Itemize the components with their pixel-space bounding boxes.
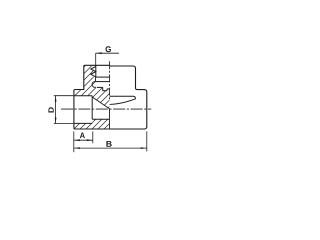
hatch: junction wedge section (80, 69, 115, 137)
body + branch outer outline (74, 65, 147, 129)
dimension D (54, 96, 74, 124)
thread crest line (95, 65, 97, 77)
insert bottom step line 1 (96, 76, 110, 78)
dimension B (74, 131, 147, 151)
seat step h3 (97, 86, 103, 88)
dimension A (74, 131, 93, 152)
socket bore bottom line (74, 122, 92, 124)
thread runout arc (92, 82, 96, 88)
seat step v2 (106, 89, 108, 91)
hatch: body bottom wall section (62, 97, 139, 139)
section boundary vertical below axis (109, 109, 111, 129)
seat step v1 (102, 87, 104, 90)
label A (80, 133, 85, 139)
blend sweep curve (outside view) (110, 99, 136, 105)
seat step h5 (107, 88, 110, 90)
label B (106, 141, 111, 147)
branch centerline (109, 61, 111, 99)
hatch: branch left wall section (60, 46, 105, 137)
run centerline (61, 108, 151, 110)
socket bore top line (74, 95, 92, 97)
socket internal shoulder (91, 96, 93, 119)
section break diagonal (92, 97, 109, 109)
thread teeth (91, 66, 96, 77)
label G (106, 46, 111, 52)
label D (48, 107, 53, 112)
insert band left edge (95, 77, 97, 82)
seat step h4 (103, 90, 107, 92)
dimension G leader (96, 52, 119, 65)
boss base upper line (outside view) (110, 96, 136, 99)
through bore bottom line (92, 118, 109, 120)
insert bottom step line 2 (96, 81, 110, 83)
